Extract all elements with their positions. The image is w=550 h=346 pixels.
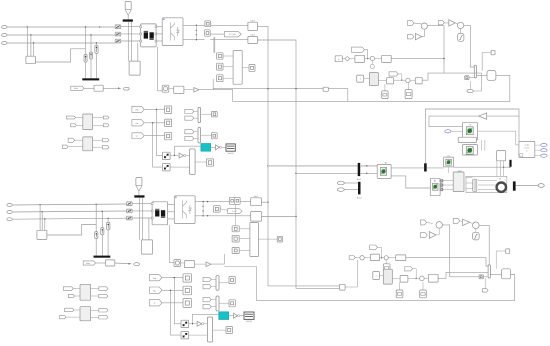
wire blockE link bottom bbox=[496, 251, 506, 269]
wire R to gain S bbox=[184, 89, 194, 91]
gain triangle B bottom bbox=[463, 219, 470, 226]
wire mux to sq block bottom bbox=[213, 329, 226, 331]
gain feedback triangle bbox=[479, 113, 487, 119]
wire sumB out bottom bbox=[479, 225, 489, 264]
wire blockF right bbox=[328, 89, 348, 102]
gain triangle S bbox=[194, 88, 199, 93]
grounding transformer block top bbox=[129, 61, 140, 75]
svg-text:Udc2: Udc2 bbox=[250, 35, 254, 37]
ground bus bar bottom bbox=[94, 256, 111, 258]
terminator block 1 top bbox=[165, 106, 172, 114]
wire tri to scope top bbox=[222, 146, 226, 148]
wire tag3 to block bbox=[144, 135, 164, 137]
three-phase source block top bbox=[26, 56, 36, 64]
wire bar3 to machine bbox=[427, 167, 444, 169]
wire DC+ to bus1 bbox=[268, 165, 358, 167]
wire relay feed 1 top bbox=[156, 109, 162, 155]
From tag PQ top bbox=[71, 86, 84, 90]
wires mux to motor bbox=[478, 180, 497, 182]
wire tag2 to block bbox=[144, 122, 164, 124]
svg-text:Vdc(V): Vdc(V) bbox=[228, 153, 234, 155]
wire VI out 2 bbox=[391, 176, 430, 188]
svg-text:scope: scope bbox=[524, 145, 529, 147]
sum circle A bottom bbox=[436, 222, 443, 229]
subsystem group 1 top bbox=[83, 114, 93, 130]
wire relay feed 1 bottom bbox=[174, 278, 181, 324]
wire sense to goto top bbox=[211, 33, 225, 35]
surge arrester 3 bottom bbox=[107, 222, 110, 229]
saturation block bottom bbox=[473, 232, 480, 240]
wire gainA to sumA bbox=[422, 29, 425, 36]
chain2 rect N bbox=[415, 78, 422, 84]
wire tag to sumA bottom bbox=[427, 222, 433, 223]
gain triangle relay top bbox=[179, 153, 184, 158]
relay block 1 top bbox=[162, 152, 170, 159]
wire motor to output oval bbox=[516, 185, 538, 187]
controller block top bbox=[487, 71, 496, 81]
IGBT converter block bottom bbox=[174, 196, 195, 224]
wire oval P2 link bbox=[473, 73, 481, 91]
wire VI out 1 bbox=[391, 167, 424, 169]
wire transformer to converter top bbox=[156, 26, 162, 28]
machine block bbox=[453, 172, 464, 192]
wire PQ out top bbox=[103, 87, 121, 89]
wire tag to gainB bottom bbox=[460, 221, 463, 222]
wire G1 to Bus2 bbox=[344, 182, 358, 184]
hanging circle below sum1 bbox=[371, 61, 373, 65]
wire y131 to right block bbox=[478, 131, 519, 145]
wire relay1 out bbox=[170, 154, 174, 156]
svg-text:B1: B1 bbox=[385, 163, 387, 165]
circuit breaker A bottom bbox=[127, 202, 133, 206]
machine left ports bbox=[440, 179, 443, 182]
gain triangle S bottom bbox=[206, 262, 211, 267]
wire Q to R bottom bbox=[181, 262, 185, 264]
motor outline rect bbox=[466, 176, 507, 192]
wire drop A to source block bbox=[26, 27, 28, 56]
wire J to K bbox=[364, 78, 370, 80]
tall regulator rect top bbox=[233, 51, 242, 85]
mux bar control bottom bbox=[488, 265, 490, 278]
triangle after cyan top bbox=[216, 145, 220, 150]
wire sum to rect2 chain2 bottom bbox=[424, 277, 428, 279]
small square right of tallrect bottom bbox=[277, 236, 283, 242]
small square on wire bottom bbox=[479, 275, 483, 279]
wire step down to long bbox=[213, 89, 232, 101]
chain2 rect bottom bbox=[400, 276, 408, 283]
wire sumB to sat bottom bbox=[475, 229, 477, 233]
wire tag below mux bottom bbox=[484, 278, 486, 289]
wire grounding bus 2 top bbox=[131, 22, 133, 61]
series inductor black bar top bbox=[123, 19, 133, 21]
wire mux to controller bbox=[477, 74, 488, 76]
wire sumA out bottom bbox=[443, 225, 480, 277]
From tag wref top bbox=[408, 21, 415, 26]
wires inner verticals machine area bbox=[480, 140, 482, 151]
wire DC- rail bottom bbox=[262, 216, 297, 218]
bus bar Bus2 bbox=[358, 182, 361, 195]
tall mux rounded bottom bbox=[207, 317, 212, 342]
circle measure block Q bbox=[162, 85, 169, 92]
small block right of tall rect bbox=[249, 64, 255, 71]
junction dots bottom bbox=[39, 204, 40, 205]
From tag chain2 bottom bbox=[405, 267, 413, 271]
wire sumB to saturation bbox=[460, 29, 462, 34]
svg-text:Udc1: Udc1 bbox=[250, 20, 254, 22]
wire relay2 to mux bottom bbox=[189, 334, 208, 336]
chain2 gradient K bbox=[369, 73, 378, 86]
wires machine to mux bbox=[466, 177, 473, 179]
voltage sense double block bottom bbox=[230, 197, 235, 204]
svg-text:Udc1: Udc1 bbox=[254, 196, 258, 198]
wire transformer tap down bbox=[158, 47, 163, 91]
wire sum1 to I bbox=[375, 58, 382, 60]
wire tag below mux bbox=[469, 81, 471, 90]
three-phase VI measurement block bbox=[377, 164, 391, 178]
voltage sense block plus top bbox=[205, 21, 211, 27]
wire phase C bottom bbox=[12, 218, 126, 219]
surge arrester 2 top bbox=[90, 52, 93, 59]
wire arrester drops bottom bbox=[95, 204, 97, 231]
chain2 rect L bbox=[387, 78, 394, 84]
gain triangle A bottom bbox=[429, 232, 436, 239]
PQ measure block bottom bbox=[106, 260, 115, 266]
wire chain1 out bbox=[391, 58, 444, 60]
wire V- to C2 top bbox=[210, 39, 248, 41]
wire relay1 out bottom bbox=[189, 323, 197, 325]
circuit breaker C bottom bbox=[127, 216, 133, 220]
series inductor black bar bottom bbox=[134, 195, 144, 197]
wire tag to gainB bbox=[444, 22, 449, 24]
surge arrester 2 bottom bbox=[101, 228, 104, 235]
wires transformer to converter bottom bbox=[168, 204, 175, 206]
wire connector right bottom bbox=[345, 260, 357, 287]
wire step down to long bottom bbox=[224, 267, 256, 301]
control subsystem block 2 bbox=[463, 145, 478, 155]
wire tag to sum1 bottom bbox=[355, 257, 360, 259]
converter output wires top bbox=[183, 24, 205, 26]
wire relay1 to gain bbox=[175, 154, 180, 156]
relay block 2 top bbox=[162, 164, 170, 171]
wire tri to scope bottom bbox=[240, 315, 244, 317]
wire diamond to G bbox=[350, 58, 355, 60]
From tag gain bottom bbox=[421, 233, 428, 238]
display O hang bbox=[384, 84, 386, 91]
sum circle B bottom bbox=[473, 222, 480, 229]
wire feedback loop left bbox=[425, 109, 519, 163]
wire machine demux row bbox=[454, 166, 511, 168]
svg-text:is: is bbox=[526, 151, 527, 153]
sum circle chain1 bbox=[370, 56, 374, 60]
wire funnel to inductor top bbox=[127, 15, 129, 19]
From tag col 1 bottom bbox=[149, 274, 162, 280]
wire sense col bottom bbox=[235, 204, 237, 226]
wires grounding bus bottom bbox=[139, 198, 141, 240]
output oval motor bbox=[538, 184, 544, 188]
small square on wire top bbox=[465, 76, 469, 80]
wire cyan input bottom bbox=[193, 314, 219, 324]
three-winding transformer bottom bbox=[152, 202, 168, 225]
IGBT symbol bottom bbox=[182, 201, 184, 219]
filter block above funnel top bbox=[125, 2, 131, 10]
filter block C1p bottom bbox=[251, 212, 262, 222]
From tag col 2 top bbox=[132, 120, 144, 126]
wire gain to block1 bbox=[429, 116, 463, 127]
wire Vminus to goto bottom bbox=[220, 209, 228, 210]
bus bar Bus1 bbox=[358, 163, 361, 176]
wire Bus1 to VI block 2 bbox=[360, 172, 377, 174]
terminator block 2 bottom bbox=[183, 286, 192, 295]
scope text block right bbox=[519, 141, 535, 157]
output oval P top bbox=[124, 87, 130, 90]
wire breaker A to transformer top bbox=[121, 26, 140, 28]
wire tallrect to sq bottom bbox=[258, 238, 277, 240]
svg-text:Vdc(V): Vdc(V) bbox=[246, 321, 252, 323]
From tag wref bottom bbox=[421, 220, 427, 225]
wire relay2 to mux top bbox=[170, 166, 190, 168]
Goto tag DC link top bbox=[224, 31, 241, 37]
wire tags to blocks bottom bbox=[162, 277, 183, 279]
node source port A (bottom) bbox=[7, 204, 12, 207]
small block E top bbox=[491, 50, 495, 55]
wire L to sum2 bbox=[394, 79, 406, 81]
wire measurement row y88 bbox=[213, 88, 323, 90]
controller block bottom bbox=[501, 269, 510, 279]
gain triangle B top bbox=[449, 20, 455, 26]
sum circle chain1 bottom bbox=[360, 256, 364, 260]
wire chain2 out bbox=[422, 73, 481, 80]
wire arrester drop 1 top bbox=[85, 27, 87, 55]
chain2 rect2 bottom bbox=[428, 274, 438, 282]
scope block top bbox=[226, 144, 235, 151]
IGBT symbol top bbox=[170, 23, 172, 41]
cyan display block bottom bbox=[219, 312, 229, 320]
wire chain1 out bottom bbox=[406, 258, 488, 266]
rect R chain bbox=[174, 86, 184, 93]
filter block C2 top bbox=[248, 36, 258, 43]
wire source return bottom bbox=[47, 225, 96, 236]
node blue oval speed ref bbox=[445, 130, 451, 133]
dark bar small bbox=[509, 160, 511, 167]
chain1 tag bottom bbox=[349, 256, 355, 260]
wire sense chain down top bbox=[213, 37, 215, 53]
mux bar control top bbox=[474, 65, 476, 78]
circuit breaker B top bbox=[115, 32, 121, 36]
tall rect regulator bottom bbox=[250, 223, 259, 257]
From tag H above bbox=[352, 47, 365, 52]
display P hang bbox=[408, 83, 410, 90]
three-phase source block bottom bbox=[37, 230, 47, 239]
PQ measure block top bbox=[94, 85, 103, 91]
small block s2 top bbox=[217, 63, 223, 70]
voltage sense blocks bottom bbox=[232, 226, 239, 232]
terminator block 3 top bbox=[165, 132, 172, 140]
chain1 block W bbox=[335, 56, 342, 62]
wire G2 to Bus2 bbox=[344, 189, 358, 191]
sum circle A top bbox=[421, 23, 427, 29]
IGBT converter block top bbox=[162, 18, 183, 46]
sum circle2 chain1 bottom bbox=[384, 256, 388, 260]
wire phase C top bbox=[7, 42, 115, 44]
wire speed ref bbox=[451, 130, 463, 132]
wire arrester drop 3 top bbox=[95, 43, 97, 45]
converter output wires bottom bbox=[195, 201, 251, 203]
pentagon tag below mux bottom bbox=[482, 289, 488, 292]
chain2 square J bbox=[357, 75, 364, 82]
wire tagH down bbox=[364, 50, 367, 59]
small block s3 top bbox=[217, 75, 223, 82]
wire drop B to source block bbox=[30, 35, 32, 56]
funnel shape top bbox=[125, 10, 128, 16]
funnel shape bottom bbox=[136, 186, 139, 192]
control subsystem block 1 bbox=[463, 123, 478, 140]
wire to PQ block top bbox=[84, 87, 94, 89]
mini tag mux group 1 top bbox=[185, 109, 194, 113]
svg-text:wm te: wm te bbox=[524, 147, 529, 150]
chain2 square bottom bbox=[373, 272, 380, 280]
vertical tag bus top bbox=[155, 108, 157, 110]
white wide block bbox=[458, 137, 476, 142]
From tag w top bbox=[408, 34, 415, 39]
wire sum1 to rect bottom bbox=[364, 257, 370, 259]
node source port B (top) bbox=[2, 34, 7, 37]
wire arrester drop 2 top bbox=[90, 35, 92, 52]
wire sumB out bbox=[464, 25, 475, 67]
voltage sense block minus top bbox=[205, 30, 211, 36]
wire relay feed 2 top bbox=[153, 123, 163, 167]
svg-text:DC_link: DC_link bbox=[229, 34, 236, 36]
chain2 gradient bottom bbox=[383, 269, 392, 284]
white tall block bbox=[497, 151, 506, 161]
subsystem group 1 bottom bbox=[80, 284, 91, 300]
terminator block 3 bottom bbox=[183, 299, 192, 308]
wire rect to sum chain2 bottom bbox=[408, 277, 419, 279]
chain1 rect bottom bbox=[370, 254, 379, 261]
wire mux to controller bottom bbox=[490, 274, 501, 276]
relay block 2 bottom bbox=[181, 332, 189, 339]
From tag col 2 bottom bbox=[149, 287, 162, 293]
mux bars machine bbox=[473, 179, 477, 191]
filter block above funnel bottom bbox=[136, 178, 142, 186]
surge arrester 3 top bbox=[95, 45, 98, 53]
three-winding transformer top bbox=[141, 24, 156, 47]
wire grounding bus 1 top bbox=[127, 22, 129, 61]
wire drops to source block bottom bbox=[39, 205, 41, 231]
wire cyan out bottom bbox=[229, 315, 234, 317]
wire S right bottom bbox=[211, 254, 224, 264]
wire breakers to transformer bottom bbox=[132, 203, 151, 205]
From tag chain2 bottom right bbox=[453, 218, 460, 223]
wire R out bottom bbox=[195, 263, 207, 265]
wire Q to R bbox=[169, 88, 174, 90]
wire DC+ rail top bbox=[258, 26, 340, 286]
From tag col 1 top bbox=[132, 106, 144, 112]
subsystem group 2 top bbox=[83, 137, 93, 151]
wire gain to mux top bbox=[186, 155, 190, 157]
sum circle chain2 bbox=[406, 78, 410, 82]
square out block bottom bbox=[226, 327, 233, 334]
chain1 rect2 bottom bbox=[396, 255, 406, 261]
From tag chain2 top bbox=[438, 21, 444, 25]
wire K to L bbox=[378, 80, 386, 82]
wire DC- rail top bbox=[258, 40, 340, 288]
motor circle bbox=[497, 183, 506, 192]
wire phase B top bbox=[7, 34, 115, 36]
wire phase A bottom bbox=[12, 204, 126, 205]
saturation block top bbox=[458, 33, 464, 41]
connector small bottom bbox=[340, 284, 346, 290]
wire tall rect to sq right bbox=[242, 67, 249, 69]
wire w to diamond bbox=[342, 58, 345, 60]
circuit breaker C top bbox=[115, 39, 121, 43]
wire funnel to inductor bottom bbox=[138, 191, 140, 195]
output oval P bottom bbox=[134, 263, 140, 266]
sum circle chain2 bottom bbox=[420, 276, 425, 281]
voltage sense block minus bottom bbox=[213, 206, 220, 212]
wire drop C to source block bbox=[33, 43, 35, 56]
scope block bottom bbox=[244, 312, 254, 319]
wire tagdown chain2 bottom bbox=[413, 269, 417, 279]
triangle after cyan bottom bbox=[234, 313, 238, 318]
wire sum to rect2 bottom bbox=[388, 257, 395, 259]
node source port C (bottom) bbox=[7, 218, 12, 221]
wire S up to sense bbox=[199, 79, 213, 90]
node source port B (bottom) bbox=[7, 211, 12, 214]
svg-text:B2: B2 bbox=[434, 180, 436, 182]
mini tag mux group 2 bottom bbox=[203, 297, 211, 301]
wire cyan input top bbox=[175, 146, 201, 155]
filter block C2p bottom bbox=[251, 198, 262, 206]
wire breaker B to transformer top bbox=[121, 33, 140, 35]
hanging display chain1 bottom bbox=[385, 260, 387, 264]
transformer winding 1 bottom bbox=[155, 210, 159, 216]
wire sum2 to N bbox=[410, 79, 415, 81]
terminator block 1 bottom bbox=[183, 274, 192, 282]
terminator block 2 top bbox=[165, 119, 172, 127]
wire cyan out bbox=[211, 146, 216, 148]
wire sq to grad bottom bbox=[379, 275, 383, 277]
small block E bottom bbox=[506, 249, 510, 253]
wire tag down bottom bbox=[378, 247, 382, 257]
node oval G2 bbox=[337, 188, 344, 192]
wire Bus1 to VI block 1 bbox=[360, 165, 377, 167]
square out block top bbox=[206, 159, 213, 166]
block F mid bbox=[323, 87, 328, 91]
oval P2 top bbox=[467, 89, 473, 92]
grounding transformer block bottom bbox=[141, 240, 152, 254]
chain1 rect G bbox=[355, 55, 365, 62]
wire controller out long bbox=[233, 75, 510, 101]
wire C1 in top bbox=[211, 24, 248, 26]
gain triangle relay bottom bbox=[197, 321, 202, 326]
circuit breaker B bottom bbox=[127, 209, 133, 213]
From tag PQ bottom bbox=[83, 261, 95, 265]
surge arrester 1 top bbox=[84, 55, 87, 63]
wire chain2 out bottom bbox=[438, 272, 488, 278]
small block s1 top bbox=[217, 53, 223, 59]
bus bar motor output bbox=[513, 181, 516, 190]
circuit breaker A top bbox=[115, 25, 121, 29]
node source port C (top) bbox=[2, 42, 7, 45]
wire gain to mux bottom bbox=[204, 323, 208, 325]
wire G to sum1 bbox=[365, 58, 371, 60]
node oval G1 bbox=[337, 181, 344, 185]
svg-text:ASM: ASM bbox=[458, 170, 462, 173]
wire tag to sum A bbox=[414, 22, 421, 25]
wire tag1 to block bbox=[144, 108, 164, 110]
wire source return top bbox=[36, 49, 86, 62]
sum circle B top bbox=[457, 22, 463, 28]
